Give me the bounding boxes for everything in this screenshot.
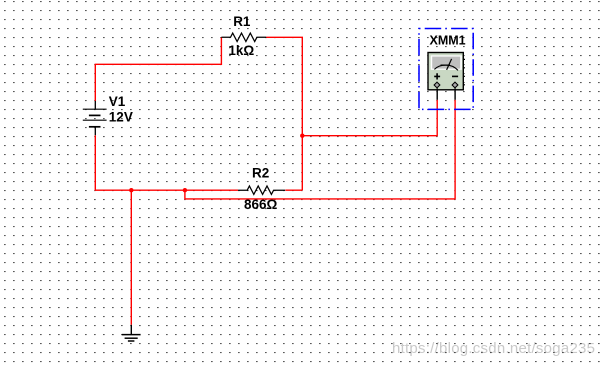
- multimeter XMM1 selection box: [419, 29, 473, 110]
- wire V1- down to bottom rail and to R2 left: [95, 135, 238, 190]
- multimeter XMM1 body: [428, 53, 463, 90]
- wire V1+ up and across to R1: [95, 37, 221, 101]
- resistor R2: [238, 186, 285, 194]
- svg-text:1kΩ: 1kΩ: [228, 43, 254, 58]
- label XMM1: [430, 33, 466, 47]
- svg-text:866Ω: 866Ω: [244, 197, 278, 212]
- svg-text:XMM1: XMM1: [430, 33, 466, 47]
- junction node B: [183, 188, 187, 192]
- XMM1 + terminal stub: [436, 88, 438, 99]
- XMM1 plus marking: [434, 73, 440, 79]
- wire R1 right to node A down to R2 right: [266, 37, 302, 190]
- wire R2 right lead to node A column: [285, 189, 302, 191]
- resistor R1: [221, 33, 266, 41]
- svg-text:12V: 12V: [109, 110, 133, 125]
- junction ground node: [129, 188, 133, 192]
- value 1kΩ: [228, 43, 254, 58]
- XMM1 minus marking: [452, 75, 458, 77]
- XMM1 - terminal stub: [454, 88, 456, 99]
- value 12V: [109, 110, 133, 125]
- XMM1 + terminal pin: [434, 82, 440, 88]
- label V1: [109, 94, 126, 109]
- wire node B to XMM1 - terminal: [185, 100, 455, 199]
- svg-text:R1: R1: [233, 14, 251, 29]
- XMM1 right edge pin ticks: [463, 59, 465, 84]
- junction node A: [300, 134, 304, 138]
- wire ground branch: [130, 190, 132, 325]
- label R1: [233, 14, 251, 29]
- svg-text:R2: R2: [252, 166, 269, 181]
- svg-text:V1: V1: [109, 94, 126, 109]
- ground: [122, 325, 141, 341]
- value 866Ω: [244, 197, 278, 212]
- XMM1 - terminal pin: [452, 82, 458, 88]
- wire node A to XMM1 + terminal: [302, 100, 437, 136]
- battery V1: [83, 101, 107, 135]
- label R2: [252, 166, 269, 181]
